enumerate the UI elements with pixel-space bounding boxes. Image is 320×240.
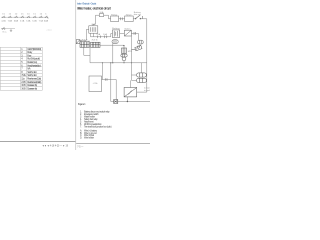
svg-text:10.2A: 10.2A bbox=[44, 20, 49, 23]
svg-text:7.: 7. bbox=[80, 126, 82, 128]
node J3 bbox=[112, 62, 113, 63]
fuse F2 bbox=[9, 16, 12, 18]
oval connector X2 bbox=[112, 40, 118, 44]
motor M1 body bbox=[122, 57, 126, 61]
node J6 bbox=[110, 62, 111, 63]
fuse F9 bbox=[99, 14, 103, 17]
svg-text:10: 10 bbox=[27, 13, 29, 15]
motor M1 collar bbox=[121, 54, 127, 57]
module K1 bbox=[111, 16, 119, 22]
ground bbox=[10, 29, 12, 32]
svg-text:Index > Electrical > Circuits: Index > Electrical > Circuits bbox=[77, 2, 96, 6]
svg-text:Wire heater: Wire heater bbox=[84, 137, 94, 140]
svg-text:5.5A: 5.5A bbox=[20, 20, 25, 23]
svg-text:X1:4: X1:4 bbox=[82, 39, 88, 41]
relay K3 bbox=[89, 26, 98, 33]
svg-text:Solen: Solen bbox=[124, 28, 130, 30]
switch S2 battery disconnect bbox=[135, 15, 142, 19]
footer rule left page bbox=[0, 140, 75, 142]
wire: drop to bottom bus bbox=[110, 63, 112, 102]
legend list group 1 bbox=[80, 110, 112, 128]
svg-text:7-8A: 7-8A bbox=[8, 20, 13, 23]
connector X3 bbox=[138, 40, 144, 44]
wire: relay K3 left lead bbox=[80, 30, 89, 41]
wire: contact to right connector bbox=[131, 33, 138, 40]
svg-text:10.5A: 10.5A bbox=[14, 20, 19, 23]
svg-text:6.0A: 6.0A bbox=[32, 20, 37, 23]
svg-text:Relay: Relay bbox=[111, 14, 117, 16]
connector X5 bbox=[137, 78, 147, 82]
battery G1 bbox=[112, 30, 119, 38]
table ref numbers bbox=[21, 48, 26, 91]
svg-text:Water heater, electrical circu: Water heater, electrical circuit bbox=[77, 7, 111, 11]
legend list group 2 bbox=[80, 130, 98, 140]
svg-text:15: 15 bbox=[33, 13, 35, 15]
svg-text:X2:6: X2:6 bbox=[92, 39, 98, 41]
page divider bbox=[75, 0, 77, 150]
connector strip X1 pins bbox=[81, 41, 89, 42]
node J8 bbox=[123, 62, 124, 63]
svg-text:5: 5 bbox=[45, 13, 46, 15]
relay K5 bbox=[124, 88, 137, 97]
fuse F8 bbox=[45, 16, 48, 18]
svg-text:D.: D. bbox=[80, 138, 82, 140]
svg-text:15: 15 bbox=[21, 13, 23, 15]
fuse F7 bbox=[40, 16, 43, 18]
wire: left drop into relay bbox=[93, 15, 96, 26]
connector ticks J4 bbox=[105, 78, 107, 81]
wire: X2 drop bbox=[112, 43, 114, 62]
node J9 bbox=[131, 62, 132, 63]
svg-text:10A: 10A bbox=[103, 33, 108, 36]
svg-text:K4: K4 bbox=[92, 24, 95, 26]
inline fuse F11 bbox=[104, 36, 106, 39]
svg-text:c540: c540 bbox=[47, 29, 53, 32]
svg-text:15: 15 bbox=[9, 13, 11, 15]
relay K3 pins bbox=[90, 27, 95, 32]
connector strip X1 block bbox=[80, 42, 89, 48]
svg-text:◄◄ ◄ 4-18 4-20 — ► 19: ◄◄ ◄ 4-18 4-20 — ► 19 bbox=[42, 145, 69, 148]
svg-text:36:B: 36:B bbox=[21, 87, 26, 90]
svg-text:to gnd: to gnd bbox=[144, 89, 150, 92]
fuse F4 bbox=[21, 16, 24, 18]
svg-text:Battery: Battery bbox=[112, 27, 120, 30]
wire: strip drop A bbox=[84, 47, 90, 55]
fuse F6 bbox=[33, 16, 36, 18]
wire: into battery bbox=[107, 34, 113, 37]
wire: strip to motor top bbox=[100, 44, 124, 46]
wire: second row bbox=[1, 28, 15, 30]
connector ticks J2 bbox=[134, 32, 136, 35]
wire: X3 drop bbox=[141, 63, 143, 73]
switch S1 bbox=[2, 27, 5, 29]
footer rule right page bbox=[76, 143, 150, 145]
svg-text:5.0A: 5.0A bbox=[26, 20, 31, 23]
wire: panel drop bbox=[115, 80, 117, 100]
wire: box links bbox=[119, 18, 125, 20]
box P1 control panel bbox=[89, 76, 102, 92]
svg-text:10: 10 bbox=[2, 13, 4, 15]
wire: fuse feed bbox=[96, 14, 100, 16]
wire: K5 drop bbox=[126, 97, 128, 102]
value labels below chain bbox=[1, 20, 48, 23]
diode D1 bbox=[132, 45, 142, 51]
svg-text:7.5A: 7.5A bbox=[39, 20, 44, 23]
wire: right drop bbox=[146, 19, 148, 92]
wire: K5 to right vertical bbox=[137, 91, 147, 93]
svg-text:10: 10 bbox=[40, 13, 42, 15]
inline fuse F10 bbox=[98, 36, 101, 39]
svg-text:-OM-: -OM- bbox=[93, 83, 99, 85]
wire: stack leads bbox=[131, 75, 137, 88]
legend table bbox=[0, 47, 42, 90]
value labels above chain bbox=[2, 13, 46, 15]
fuse F3 bbox=[15, 16, 18, 18]
connector X4 bbox=[137, 73, 147, 77]
svg-text:Door assembly: Door assembly bbox=[27, 87, 38, 90]
relay contact K4 bbox=[124, 30, 131, 36]
wire: motor to bus bbox=[123, 61, 125, 63]
wire: relay K3 leads down bbox=[80, 30, 108, 41]
module K2 bbox=[125, 16, 134, 22]
inline connector X6 bbox=[114, 100, 118, 104]
fuse F1 bbox=[2, 16, 5, 18]
wire: right mid vertical bbox=[131, 36, 133, 80]
connector strip X1 comb bbox=[91, 42, 100, 47]
wire: top chain bbox=[1, 16, 48, 18]
motor M1 brush box bbox=[122, 45, 127, 53]
svg-text:4-5A: 4-5A bbox=[1, 20, 6, 23]
svg-text:Timer: Timer bbox=[126, 14, 133, 16]
wire: battery to contact bbox=[120, 32, 125, 34]
wire: panel feed stub bbox=[101, 63, 103, 80]
table descriptions bbox=[27, 48, 41, 91]
wire: strip drop B / mid bus bbox=[90, 47, 147, 62]
connector ticks J1 bbox=[121, 17, 123, 20]
terminal T1 bbox=[76, 40, 80, 44]
svg-text:B 4+: B 4+ bbox=[3, 31, 8, 33]
wire: panel right lead bbox=[102, 79, 117, 81]
svg-text:7-5 —: 7-5 — bbox=[77, 145, 84, 148]
svg-text:disc sw: disc sw bbox=[134, 14, 142, 16]
svg-text:Terminal block junction box (c: Terminal block junction box (cab) bbox=[84, 125, 112, 128]
svg-text:Figure 1: Figure 1 bbox=[78, 104, 86, 106]
node J7 bbox=[102, 62, 103, 63]
svg-text:10: 10 bbox=[15, 13, 17, 15]
node J5 bbox=[127, 101, 128, 102]
fuse F5 bbox=[27, 16, 30, 18]
wire: bottom bus bbox=[111, 101, 150, 103]
wire: bus y37 bbox=[91, 36, 109, 38]
